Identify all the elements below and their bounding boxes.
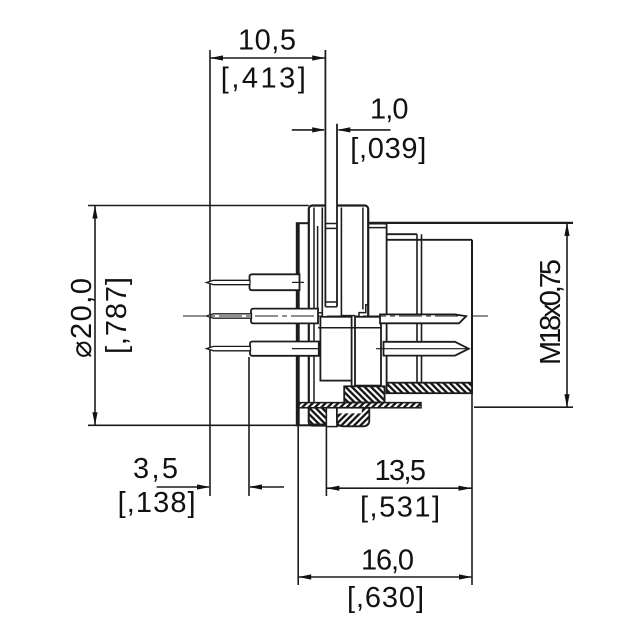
svg-text:[,039]: [,039] [350, 133, 426, 165]
dim M18 vertical line [566, 223, 568, 407]
hatch strip (3) [299, 403, 421, 408]
pin row3 sleeve [250, 342, 319, 356]
dim 3,5 leaders [157, 486, 209, 488]
white notch [326, 408, 337, 427]
pin row2 sleeve [251, 309, 318, 324]
body: flange thick left edge [297, 223, 300, 425]
bottom right contact [384, 342, 469, 356]
dim 1,0 leaders [292, 129, 324, 131]
neck top lines [368, 223, 387, 225]
dim 10,5 line [210, 57, 325, 59]
pin row1 thin pin [207, 280, 251, 284]
body: main disc o20 [309, 206, 368, 426]
svg-text:[,138]: [,138] [118, 487, 196, 519]
hatch flange ring (4) [309, 408, 326, 425]
svg-text:[,413]: [,413] [221, 63, 306, 95]
pin row1 sleeve [250, 274, 300, 290]
svg-text:1,0: 1,0 [370, 94, 409, 126]
pin row2 thin pin [207, 314, 252, 318]
dim 16,0 line [298, 576, 472, 578]
dim 13,5 line [326, 487, 471, 489]
svg-text:13,5: 13,5 [375, 455, 427, 487]
svg-text:[,787]: [,787] [101, 277, 133, 354]
extension line x=298.5 (16,0 left) [297, 425, 299, 585]
contact post 1 [320, 317, 351, 381]
middle right contact [380, 314, 466, 323]
disc inner right line [362, 208, 364, 310]
centerline dash-dot [183, 315, 488, 317]
slot outer wall right [340, 208, 342, 316]
svg-text:16,0: 16,0 [361, 545, 414, 577]
thread line long y=240 [387, 239, 472, 241]
tab right edge [336, 124, 338, 307]
pin row3 axis tick left [292, 348, 325, 350]
barrel left edge [386, 224, 388, 383]
barrel top edge + M18 top extension y=223 [369, 222, 573, 224]
bottom right contact axis [376, 348, 469, 350]
cavity bottom line across posts [318, 327, 381, 329]
tab cap at disc entry [325, 223, 337, 225]
extension line x=249 (3,5 right) [248, 357, 250, 496]
body: neck white fill [366, 224, 387, 383]
extension line M18 bottom y=407 [474, 406, 573, 408]
body: barrel white fill [387, 223, 472, 383]
pin row1 axis tick [292, 281, 304, 283]
extension line left x=210 (10,5 / 3,5) [209, 50, 211, 496]
barrel right edge [471, 240, 473, 393]
hatch block shell mid (2) [344, 386, 384, 402]
svg-text:10,5: 10,5 [238, 24, 296, 56]
tab left edge / 10,5 right extension [324, 50, 326, 307]
thread end double vertical [416, 234, 418, 383]
svg-text:⌀20,0: ⌀20,0 [66, 278, 98, 358]
hatch nose block (5) rounded [337, 408, 369, 427]
tab (1,0 lug) white column [325, 124, 337, 307]
svg-text:3,5: 3,5 [133, 453, 178, 485]
body: front gasket part A [297, 223, 309, 425]
extension line o20 top y=206 [88, 205, 309, 207]
disc inner left line [313, 208, 315, 425]
extension line x=472 (13,5 / 16,0 right) [471, 393, 473, 585]
slot outer wall left [321, 208, 323, 316]
extension line x=326 (13,5 left) [325, 427, 327, 496]
white step inside nose block [338, 409, 362, 414]
hatch block shell right (1) [387, 383, 472, 394]
post1 to hatch connector [351, 381, 353, 387]
disc inner step line [317, 226, 319, 313]
svg-text:M18x0,75: M18x0,75 [535, 259, 567, 365]
step right of cavity [359, 305, 368, 317]
tab bottom caps [325, 301, 337, 303]
svg-text:[,531]: [,531] [360, 492, 440, 524]
pin row3 thin pin [207, 346, 251, 350]
contact post 2 [355, 317, 381, 386]
dim o20 vertical line [94, 206, 96, 426]
cavity ledge [318, 312, 323, 314]
svg-text:[,630]: [,630] [347, 582, 424, 614]
extension line o20 bottom y=425 [88, 424, 299, 426]
thread line short y=234 [387, 233, 417, 235]
